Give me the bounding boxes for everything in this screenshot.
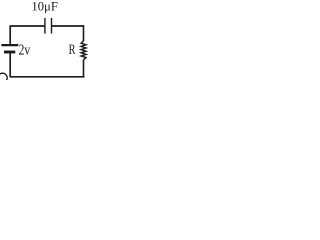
wire left upper (top to battery) (9, 25, 11, 44)
wire top-left segment (10, 25, 45, 27)
terminal circle (cut off at corner) (0, 73, 7, 82)
wire top-right segment (52, 25, 84, 27)
capacitor C1 left plate (44, 18, 46, 34)
battery B1 long plate (positive) (1, 44, 18, 46)
resistor R zigzag (81, 41, 86, 60)
label 2v (battery voltage) (19, 45, 30, 55)
background (0, 0, 89, 80)
capacitor C1 right plate (51, 18, 53, 34)
wire right lower (resistor to bottom) (83, 60, 85, 78)
label 10uF (capacitor value) (33, 2, 58, 13)
wire left lower (battery to bottom) (9, 53, 11, 77)
battery B1 short plate (negative) (4, 51, 15, 54)
label R (resistor) (69, 45, 76, 54)
wire bottom segment (10, 76, 85, 78)
wire right upper (to resistor) (83, 25, 85, 41)
